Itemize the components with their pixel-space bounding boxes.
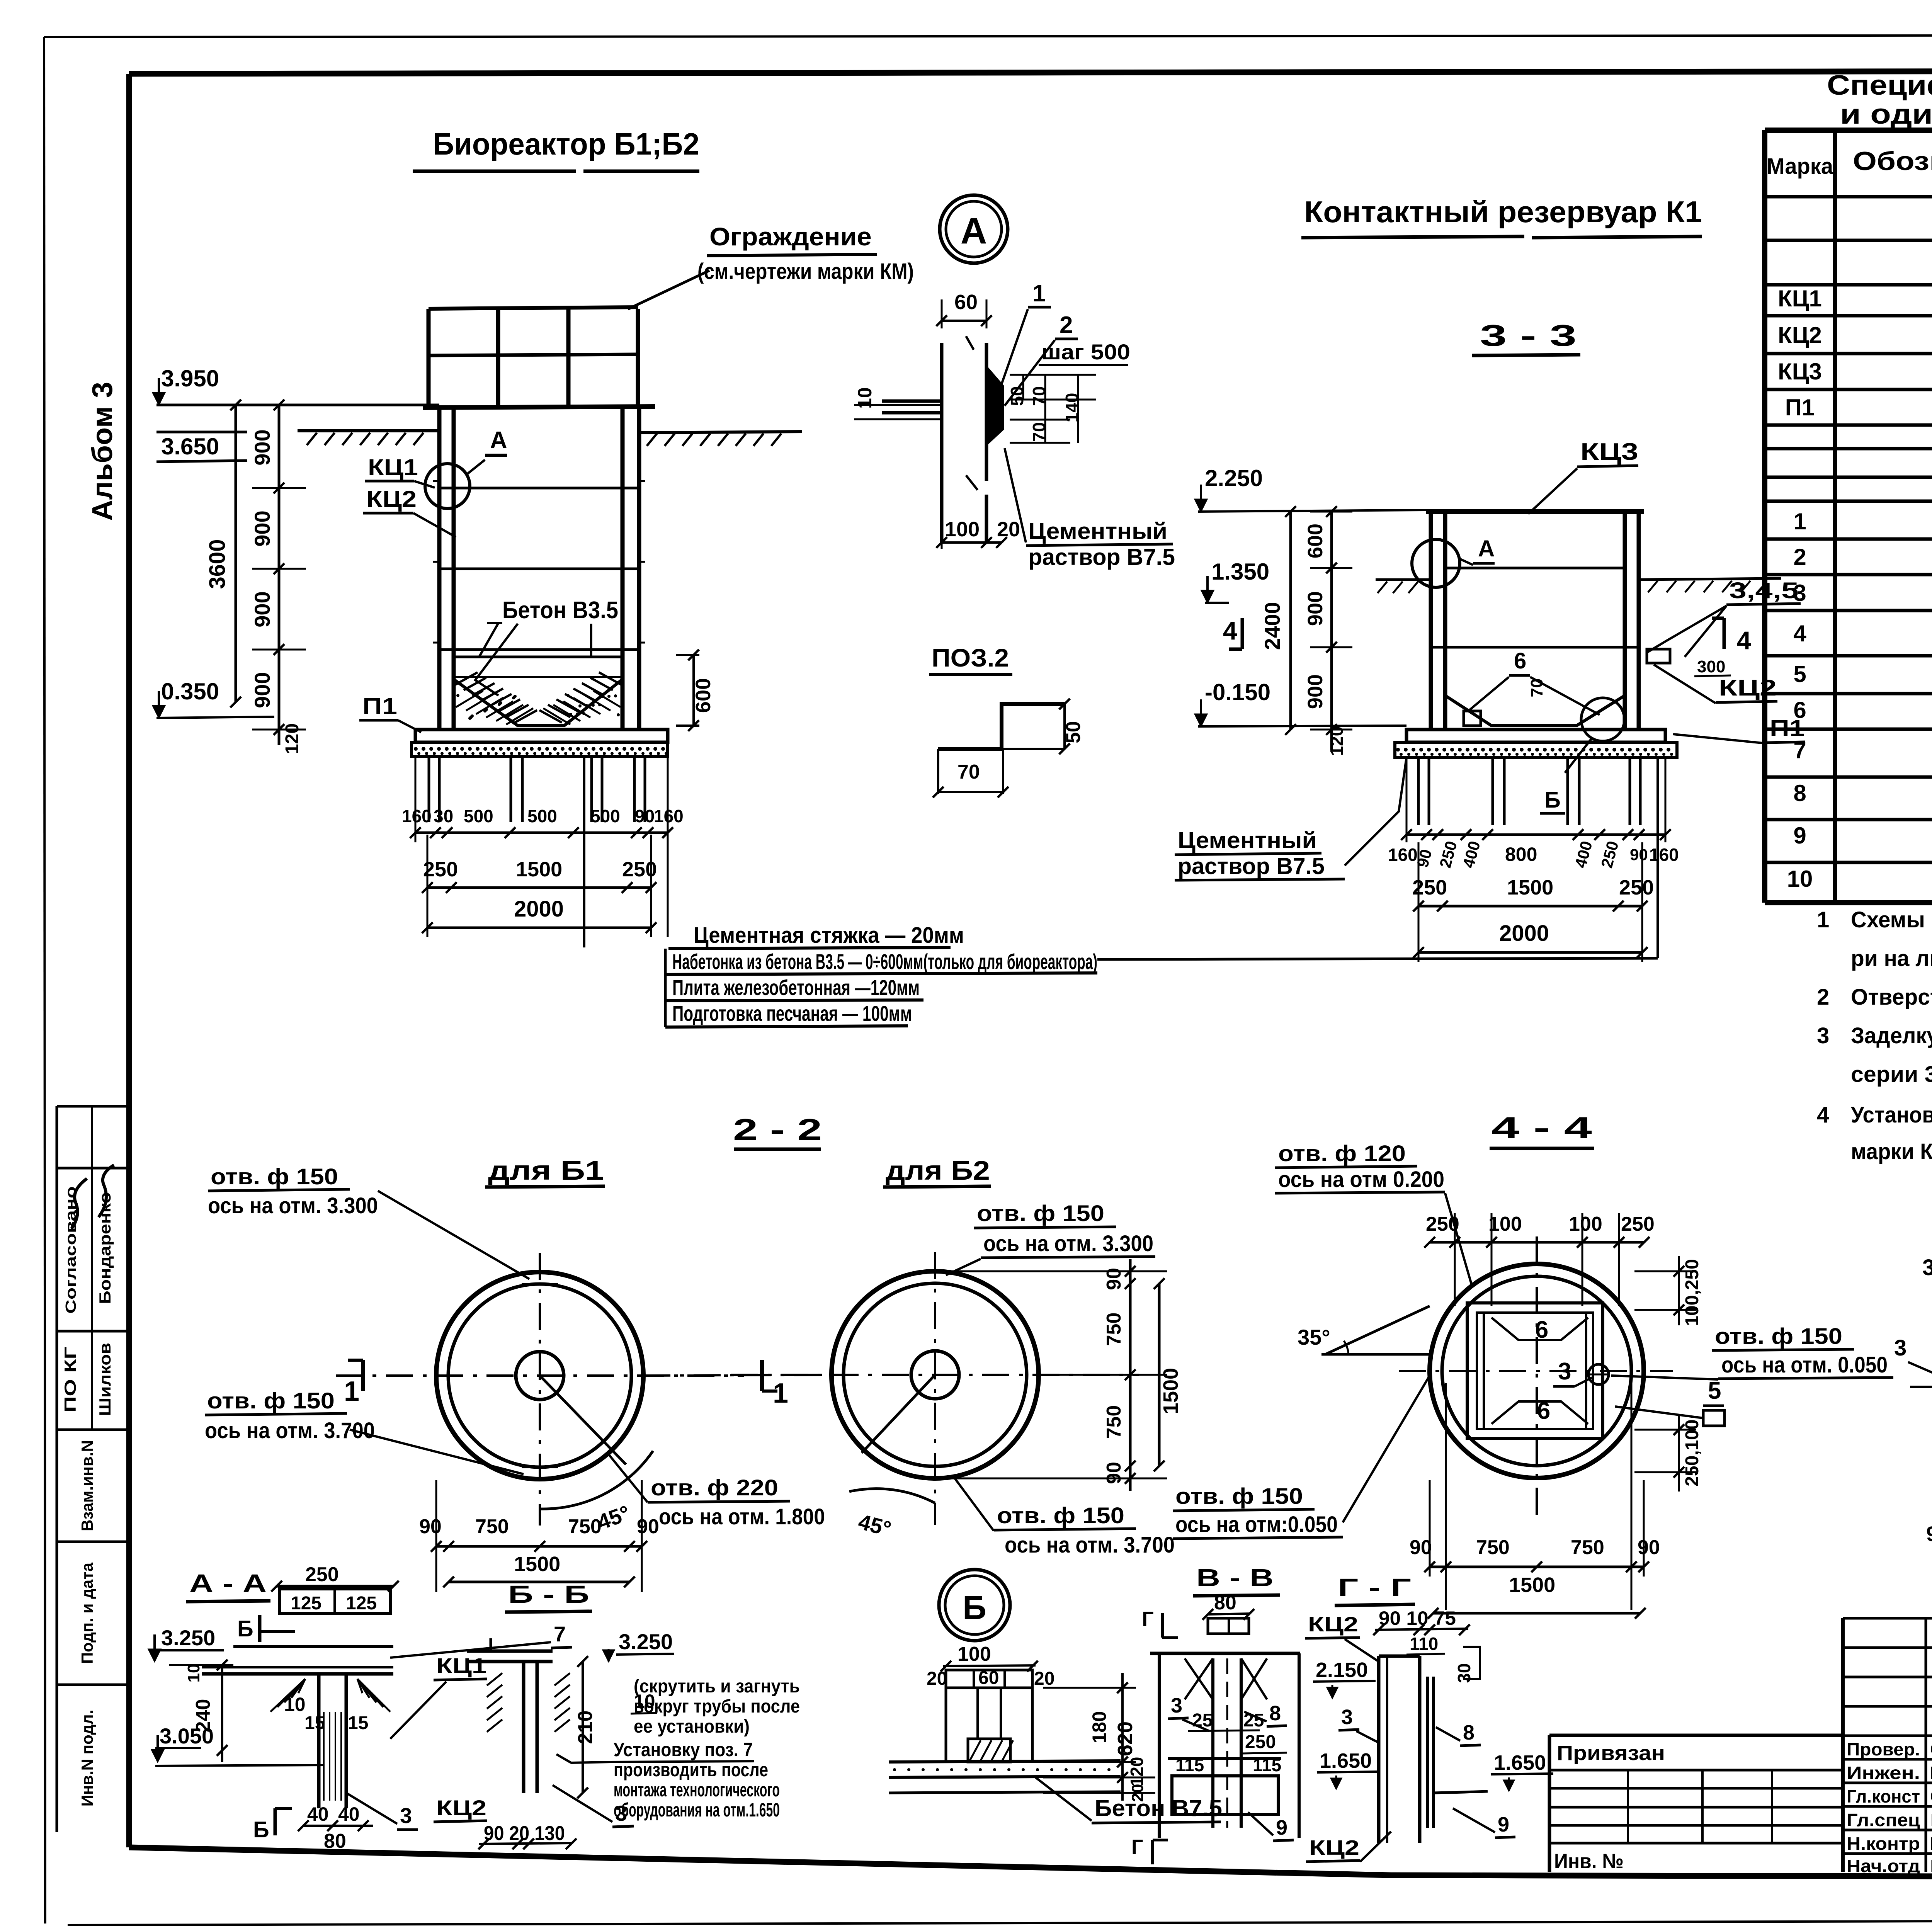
svg-text:40: 40 [307, 1803, 329, 1825]
svg-text:300: 300 [1697, 657, 1725, 676]
svg-text:отв. ф 120: отв. ф 120 [1278, 1141, 1406, 1166]
svg-text:ри на листе и чертеже марки: ри на листе и чертеже марки ГП [1851, 946, 1932, 971]
svg-text:120: 120 [1327, 726, 1347, 756]
svg-text:марки КМ после монтажа тех: марки КМ после монтажа технологического … [1851, 1139, 1932, 1164]
svg-text:Спецификация элементов на о: Спецификация элементов на один биореакто… [1827, 70, 1932, 101]
svg-text:250: 250 [1426, 1213, 1459, 1235]
svg-text:1500: 1500 [1507, 876, 1553, 899]
svg-text:1: 1 [773, 1378, 788, 1409]
svg-text:80: 80 [324, 1830, 346, 1852]
svg-text:отв. ф 150: отв. ф 150 [997, 1503, 1124, 1528]
svg-text:100: 100 [957, 1643, 991, 1665]
svg-text:115: 115 [1175, 1755, 1204, 1775]
svg-text:9: 9 [1498, 1813, 1509, 1836]
svg-text:отв. ф 150: отв. ф 150 [207, 1388, 335, 1413]
svg-text:Б: Б [237, 1616, 253, 1641]
svg-text:Подготовка песчаная — 100: Подготовка песчаная — 100мм [672, 1001, 912, 1026]
svg-text:Стронгин: Стронгин [1930, 1786, 1932, 1806]
svg-text:и один контактный резервуар: и один контактный резервуар [1840, 99, 1932, 130]
svg-text:производить после: производить после [614, 1759, 768, 1781]
svg-text:Инв. №: Инв. № [1554, 1850, 1624, 1873]
svg-text:4: 4 [1223, 616, 1237, 645]
svg-text:160: 160 [402, 806, 432, 826]
svg-text:ось на отм. 3.700: ось на отм. 3.700 [205, 1418, 375, 1443]
svg-text:Инжен.: Инжен. [1847, 1763, 1920, 1783]
svg-text:КЦ3: КЦ3 [1778, 359, 1822, 384]
svg-text:ось на отм:0.050: ось на отм:0.050 [1175, 1512, 1338, 1537]
svg-text:Гл.конст: Гл.конст [1847, 1786, 1920, 1806]
svg-text:КЦ2: КЦ2 [1719, 675, 1777, 701]
svg-text:750: 750 [1103, 1313, 1125, 1346]
svg-text:750: 750 [568, 1515, 602, 1538]
svg-text:раствор В7.5: раствор В7.5 [1178, 853, 1325, 879]
svg-text:отв. ф 150: отв. ф 150 [211, 1164, 338, 1189]
svg-text:3 - 3: 3 - 3 [1480, 318, 1577, 352]
svg-text:вокруг трубы после: вокруг трубы после [634, 1696, 800, 1717]
svg-text:Отверстия для прохода техно: Отверстия для прохода технологических тр… [1851, 985, 1932, 1010]
svg-text:600: 600 [1304, 524, 1327, 558]
svg-text:15: 15 [348, 1713, 368, 1733]
svg-text:180: 180 [1088, 1711, 1110, 1743]
svg-text:160: 160 [1388, 845, 1418, 865]
svg-text:серии 3.900-3 Вып. 2/82.: серии 3.900-3 Вып. 2/82. [1851, 1062, 1932, 1087]
svg-text:Цементная стяжка — 20мм: Цементная стяжка — 20мм [694, 923, 964, 948]
svg-text:Цементный: Цементный [1178, 827, 1317, 853]
svg-text:600: 600 [692, 678, 715, 713]
svg-text:750: 750 [1103, 1405, 1125, 1439]
svg-text:Г: Г [1142, 1607, 1154, 1631]
svg-text:25: 25 [1192, 1710, 1213, 1731]
svg-text:Нач.отд: Нач.отд [1847, 1856, 1920, 1876]
svg-text:110: 110 [1410, 1634, 1438, 1654]
svg-text:В - В: В - В [1196, 1564, 1274, 1592]
svg-text:40: 40 [338, 1803, 360, 1825]
svg-text:КЦ2: КЦ2 [436, 1796, 486, 1820]
svg-text:Цементный: Цементный [1028, 518, 1167, 544]
svg-text:Пронин: Пронин [1930, 1810, 1932, 1830]
svg-text:620: 620 [1114, 1721, 1137, 1756]
svg-text:30: 30 [434, 806, 453, 826]
svg-text:Гл.спец: Гл.спец [1847, 1810, 1920, 1830]
svg-text:500: 500 [464, 806, 493, 826]
svg-text:отв. ф 150: отв. ф 150 [1175, 1484, 1303, 1509]
svg-text:750: 750 [1476, 1536, 1510, 1559]
svg-text:1500: 1500 [514, 1553, 560, 1576]
svg-text:25: 25 [1243, 1710, 1264, 1731]
svg-text:2.150: 2.150 [1316, 1658, 1368, 1682]
svg-text:3: 3 [1793, 580, 1806, 606]
svg-text:монтажа технологического: монтажа технологического [614, 1779, 780, 1801]
svg-text:ее установки): ее установки) [634, 1716, 750, 1737]
svg-text:П1: П1 [1785, 395, 1815, 420]
svg-text:Контактный резервуар К1: Контактный резервуар К1 [1304, 195, 1702, 229]
svg-text:для Б1: для Б1 [488, 1155, 604, 1185]
svg-text:Набетонка из бетона В3.5 — 0÷6: Набетонка из бетона В3.5 — 0÷600мм(тольк… [672, 949, 1097, 974]
svg-text:Инв.N подл.: Инв.N подл. [78, 1710, 96, 1807]
svg-text:9: 9 [1793, 823, 1806, 849]
svg-text:90: 90 [1410, 1536, 1432, 1559]
svg-text:6: 6 [1535, 1316, 1548, 1343]
svg-text:раствор В7.5: раствор В7.5 [1028, 544, 1175, 570]
svg-text:3: 3 [1922, 1255, 1932, 1280]
svg-text:Привязан: Привязан [1557, 1742, 1665, 1765]
svg-text:4: 4 [1737, 626, 1751, 655]
svg-text:ПОЗ.2: ПОЗ.2 [932, 643, 1009, 672]
svg-text:КЦ1: КЦ1 [1778, 286, 1822, 311]
svg-text:Б - Б: Б - Б [508, 1580, 589, 1608]
svg-text:шаг 500: шаг 500 [1041, 340, 1130, 364]
svg-text:1: 1 [1032, 280, 1046, 307]
svg-text:П1: П1 [362, 693, 397, 719]
svg-text:20: 20 [997, 518, 1020, 541]
svg-text:3: 3 [400, 1803, 412, 1828]
svg-text:КЦ2: КЦ2 [366, 486, 417, 512]
svg-text:ось на отм. 0.050: ось на отм. 0.050 [1721, 1352, 1888, 1378]
svg-text:ПО КГ: ПО КГ [61, 1347, 79, 1412]
svg-text:Установку ограждения биореакт: Установку ограждения биореактора произво… [1851, 1102, 1932, 1128]
svg-text:90: 90 [637, 1515, 659, 1538]
svg-text:Альбом 3: Альбом 3 [86, 382, 118, 521]
svg-text:90: 90 [1103, 1462, 1125, 1484]
svg-text:Установку поз. 7: Установку поз. 7 [614, 1739, 753, 1760]
svg-text:750: 750 [475, 1515, 509, 1538]
svg-text:90: 90 [1638, 1536, 1660, 1559]
svg-text:ось на отм. 3.300: ось на отм. 3.300 [208, 1193, 378, 1218]
svg-text:3: 3 [1817, 1023, 1829, 1048]
svg-text:250: 250 [423, 858, 458, 881]
svg-text:2000: 2000 [514, 896, 564, 922]
svg-text:1: 1 [1793, 509, 1806, 534]
svg-text:А: А [490, 427, 507, 454]
svg-text:60: 60 [954, 291, 978, 314]
svg-text:125: 125 [346, 1593, 377, 1614]
svg-text:900: 900 [250, 510, 274, 546]
svg-text:15: 15 [304, 1713, 325, 1733]
svg-text:20: 20 [1128, 1784, 1146, 1802]
svg-text:10: 10 [284, 1694, 306, 1715]
svg-text:2.250: 2.250 [1205, 465, 1263, 491]
svg-text:9: 9 [1276, 1816, 1287, 1839]
svg-text:3.250: 3.250 [619, 1629, 673, 1654]
svg-text:0.350: 0.350 [161, 679, 219, 704]
svg-text:500: 500 [527, 806, 557, 826]
svg-text:Провер.: Провер. [1847, 1739, 1920, 1759]
svg-text:7: 7 [554, 1622, 566, 1646]
svg-text:А: А [961, 211, 987, 252]
svg-text:250,100: 250,100 [1682, 1419, 1702, 1486]
svg-text:2: 2 [1817, 985, 1829, 1010]
svg-text:50: 50 [1062, 721, 1085, 743]
svg-text:35°: 35° [1298, 1325, 1330, 1349]
svg-text:3.050: 3.050 [160, 1724, 214, 1748]
svg-text:3.950: 3.950 [161, 366, 219, 391]
svg-text:КЦ2: КЦ2 [1778, 322, 1822, 348]
svg-text:250: 250 [305, 1563, 339, 1586]
svg-text:2400: 2400 [1260, 602, 1284, 650]
svg-text:3: 3 [1558, 1358, 1571, 1385]
svg-text:3600: 3600 [205, 539, 230, 589]
svg-text:90: 90 [419, 1515, 442, 1538]
svg-text:100: 100 [945, 518, 980, 541]
svg-text:900: 900 [250, 429, 274, 465]
svg-text:2: 2 [1060, 312, 1073, 338]
svg-text:ось на отм. 3.700: ось на отм. 3.700 [1005, 1532, 1175, 1558]
svg-text:Схемы расположения биореакто: Схемы расположения биореакторов и контак… [1851, 907, 1932, 932]
svg-text:отв. ф 150: отв. ф 150 [1715, 1324, 1842, 1349]
svg-text:Шилков: Шилков [96, 1343, 114, 1416]
svg-text:А: А [1478, 536, 1495, 561]
svg-text:Курганова: Курганова [1930, 1763, 1932, 1783]
svg-text:8: 8 [1793, 780, 1806, 806]
svg-text:3.650: 3.650 [161, 434, 219, 459]
svg-text:90 20 130: 90 20 130 [484, 1822, 565, 1845]
svg-text:А - А: А - А [189, 1569, 267, 1597]
svg-text:Б: Б [1544, 787, 1561, 813]
svg-text:250: 250 [1621, 1213, 1655, 1235]
svg-text:1500: 1500 [1159, 1368, 1182, 1414]
svg-text:для Б2: для Б2 [886, 1155, 990, 1185]
svg-text:90: 90 [635, 806, 655, 826]
svg-text:2: 2 [1793, 544, 1806, 570]
svg-text:10: 10 [1787, 866, 1813, 892]
svg-text:Ограждение: Ограждение [709, 222, 872, 251]
svg-text:120: 120 [1127, 1757, 1147, 1787]
svg-text:Подп. и дата: Подп. и дата [78, 1562, 96, 1664]
svg-text:Заделку труб в отверстиях п: Заделку труб в отверстиях производить по… [1851, 1023, 1932, 1048]
svg-text:1.350: 1.350 [1211, 559, 1269, 585]
svg-text:2000: 2000 [1499, 921, 1549, 946]
svg-text:100: 100 [1488, 1213, 1522, 1235]
svg-text:4: 4 [1817, 1102, 1829, 1128]
svg-text:Обозначение: Обозначение [1853, 146, 1932, 176]
svg-text:отв. ф 150: отв. ф 150 [977, 1201, 1104, 1226]
svg-text:750: 750 [1571, 1536, 1604, 1559]
svg-text:6: 6 [1537, 1398, 1550, 1424]
svg-text:1500: 1500 [1509, 1573, 1555, 1597]
svg-text:500: 500 [590, 806, 620, 826]
svg-text:90 10 75: 90 10 75 [1379, 1607, 1456, 1629]
svg-text:3: 3 [1341, 1706, 1353, 1729]
svg-text:1: 1 [1817, 907, 1829, 932]
svg-text:Б: Б [963, 1589, 986, 1626]
svg-text:-0.150: -0.150 [1205, 679, 1270, 705]
svg-text:5: 5 [1708, 1378, 1721, 1404]
svg-text:160: 160 [1649, 845, 1679, 865]
svg-text:Взам.инв.N: Взам.инв.N [78, 1440, 96, 1531]
svg-text:(см.чертежи марки КМ): (см.чертежи марки КМ) [697, 259, 914, 284]
svg-text:70: 70 [1527, 679, 1546, 697]
svg-text:Биореактор Б1;Б2: Биореактор Б1;Б2 [433, 127, 699, 161]
svg-text:20: 20 [1034, 1668, 1054, 1689]
svg-text:Плита железобетонная —120мм: Плита железобетонная —120мм [672, 975, 920, 1000]
svg-text:800: 800 [1505, 844, 1537, 865]
svg-text:20: 20 [927, 1668, 947, 1689]
svg-text:125: 125 [291, 1593, 321, 1614]
svg-text:10: 10 [854, 387, 876, 409]
svg-text:Новорошен: Новорошен [1930, 1833, 1932, 1854]
svg-text:Н.контр: Н.контр [1847, 1833, 1920, 1854]
svg-text:Б: Б [253, 1817, 269, 1842]
svg-text:Бетон В3.5: Бетон В3.5 [502, 597, 618, 624]
svg-text:КЦ3: КЦ3 [1580, 439, 1638, 465]
svg-text:1.650: 1.650 [1320, 1749, 1372, 1772]
svg-text:3.250: 3.250 [161, 1626, 215, 1650]
svg-text:КЦ1: КЦ1 [436, 1653, 486, 1678]
svg-text:6: 6 [1514, 648, 1526, 673]
svg-text:70: 70 [957, 761, 980, 783]
svg-text:900: 900 [250, 672, 274, 708]
svg-text:80: 80 [1214, 1592, 1236, 1614]
svg-text:90: 90 [1103, 1268, 1125, 1290]
svg-text:оборудования на отм.1.650: оборудования на отм.1.650 [614, 1799, 780, 1821]
svg-text:КЦ2: КЦ2 [1308, 1613, 1358, 1636]
svg-text:900: 900 [250, 591, 274, 627]
svg-text:3: 3 [1894, 1335, 1906, 1361]
svg-text:Стронгин: Стронгин [1930, 1739, 1932, 1759]
svg-text:210: 210 [574, 1711, 597, 1744]
svg-text:8: 8 [1463, 1721, 1475, 1744]
svg-text:900: 900 [1304, 674, 1327, 709]
svg-text:250: 250 [1619, 876, 1654, 899]
svg-text:90: 90 [1630, 845, 1648, 864]
svg-text:Г: Г [1131, 1835, 1143, 1859]
svg-text:3: 3 [1171, 1694, 1182, 1717]
svg-text:ось на отм 0.200: ось на отм 0.200 [1278, 1167, 1444, 1192]
svg-text:100,250: 100,250 [1682, 1259, 1702, 1326]
svg-text:7: 7 [1793, 737, 1806, 763]
svg-text:отв. ф 220: отв. ф 220 [651, 1475, 778, 1500]
svg-text:6: 6 [1793, 697, 1806, 723]
svg-text:ось на отм. 1.800: ось на отм. 1.800 [659, 1504, 825, 1529]
svg-text:КЦ1: КЦ1 [368, 454, 418, 480]
svg-text:115: 115 [1253, 1755, 1281, 1775]
svg-text:1: 1 [344, 1376, 359, 1407]
svg-text:ось на отм. 3.300: ось на отм. 3.300 [983, 1231, 1153, 1256]
svg-text:4 - 4: 4 - 4 [1492, 1111, 1592, 1145]
svg-text:Г - Г: Г - Г [1338, 1573, 1411, 1601]
svg-text:120: 120 [282, 723, 303, 754]
svg-text:60: 60 [978, 1668, 999, 1688]
svg-text:1.650: 1.650 [1494, 1751, 1546, 1774]
svg-text:Письман: Письман [1930, 1856, 1932, 1876]
svg-text:Марка: Марка [1767, 154, 1833, 179]
svg-text:250: 250 [1245, 1732, 1276, 1752]
svg-text:4: 4 [1793, 621, 1806, 646]
svg-text:90: 90 [1926, 1522, 1932, 1546]
svg-text:8: 8 [1269, 1702, 1281, 1725]
svg-text:5: 5 [1793, 661, 1806, 687]
svg-text:(скрутить и загнуть: (скрутить и загнуть [634, 1676, 800, 1697]
svg-text:КЦ2: КЦ2 [1309, 1836, 1359, 1859]
svg-text:1500: 1500 [516, 858, 562, 881]
svg-text:2 - 2: 2 - 2 [733, 1112, 822, 1146]
svg-text:900: 900 [1304, 591, 1327, 626]
svg-text:100: 100 [1569, 1213, 1602, 1235]
svg-text:10: 10 [184, 1664, 203, 1683]
